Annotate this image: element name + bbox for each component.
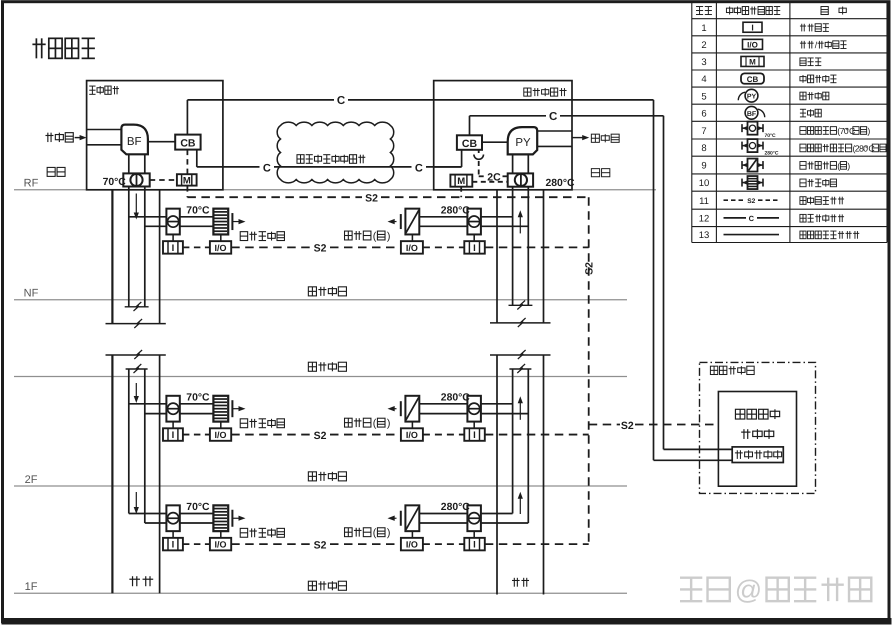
svg-text:12: 12 [699, 214, 710, 225]
legend icon closed supply grille [742, 182, 748, 184]
legend row 1 name 输入模块 [800, 25, 806, 27]
label 防烟分区 [308, 472, 316, 481]
io module I/O 1F [210, 538, 231, 551]
floor line NF [14, 299, 627, 301]
fire damper 70C branch NF [166, 209, 179, 235]
bus S2 branch 1F left [183, 543, 210, 545]
smoke valve arrow NF [392, 221, 397, 223]
label 室外 left [47, 167, 55, 176]
input module I NF [163, 241, 183, 254]
fire linkage controller box [718, 392, 796, 487]
svg-text:S2: S2 [314, 430, 327, 442]
exhaust shaft wall right [543, 190, 545, 323]
svg-text:C: C [415, 162, 423, 174]
smoke exhaust valve 1F [400, 511, 402, 526]
wire branch supply 2F [129, 403, 167, 405]
supply fan room box [87, 81, 223, 190]
wire CB to M dashed [186, 150, 188, 175]
input module I exhaust NF [464, 241, 485, 254]
module box M exhaust [450, 175, 472, 187]
legend icon module cabinet [741, 56, 764, 66]
control box CB supply [175, 135, 200, 150]
wire valve to damper 2F [419, 403, 467, 405]
closed air supply grille 1F [213, 505, 228, 531]
legend row 11 name 联动信号总线 [800, 197, 806, 205]
svg-text:I/O: I/O [406, 539, 418, 549]
svg-text:): ) [387, 230, 391, 242]
label 管井 exhaust [512, 579, 520, 581]
svg-text:BF: BF [127, 136, 142, 148]
closed air supply grille NF [213, 209, 228, 235]
svg-text:I: I [172, 243, 175, 254]
inlet duct wires [87, 129, 122, 131]
svg-text:6: 6 [701, 108, 706, 119]
legend line signal bus [724, 199, 745, 201]
svg-text:I: I [172, 430, 175, 441]
legend icon io module [743, 39, 763, 49]
svg-text:M: M [457, 176, 465, 187]
label 防烟分区 [308, 287, 316, 296]
svg-text:C: C [337, 95, 345, 107]
svg-text:S2: S2 [621, 420, 634, 432]
svg-text:I/O: I/O [214, 243, 226, 253]
label 管井 supply [129, 578, 140, 580]
wire CB exhaust to PY [482, 141, 508, 143]
fan outlet duct down [128, 154, 130, 173]
svg-text:(: ( [837, 161, 840, 171]
label 手动控制盘 [735, 452, 743, 454]
label 常闭补风口 1F [240, 528, 247, 537]
legend row 2 name 输入/输出模块 [800, 42, 806, 44]
svg-text:70°C: 70°C [103, 177, 127, 188]
fire damper 280C exhaust room [508, 173, 533, 186]
exhaust fan duct down [512, 154, 514, 173]
wire CB exhaust up / direct control C line B [469, 116, 471, 136]
svg-text:I/O: I/O [214, 430, 226, 440]
svg-text:CB: CB [747, 75, 759, 84]
label 排烟阀(口) 1F [345, 528, 353, 537]
svg-text:70°C: 70°C [186, 392, 210, 403]
smoke valve arrow 1F [392, 517, 397, 519]
svg-text:280°C: 280°C [441, 502, 470, 513]
svg-text:S2: S2 [365, 193, 378, 205]
fire damper 70C branch 2F [166, 396, 179, 422]
input module I 1F [163, 538, 183, 551]
wire valve to damper NF [419, 216, 467, 218]
bus S2 from M supply [186, 186, 188, 198]
svg-text:4: 4 [701, 74, 706, 85]
svg-text:C: C [263, 162, 271, 174]
svg-text:): ) [867, 126, 870, 136]
exhaust shaft break lower [490, 354, 551, 356]
fire damper 70C supply room [123, 173, 149, 186]
legend row 9 name 常闭排烟阀(口) [800, 162, 806, 170]
svg-text:(: ( [373, 527, 377, 539]
manual control panel box 手动控制盘 [732, 447, 783, 463]
svg-text:7: 7 [701, 126, 706, 137]
bus S2 exhaust 2F [423, 434, 464, 436]
svg-text:280°C: 280°C [546, 178, 575, 189]
cloud 连锁停补风风机线 [277, 122, 394, 183]
label 排烟阀(口) 2F [345, 418, 353, 427]
input module I exhaust 1F [464, 538, 485, 551]
label 防烟分区 [308, 581, 316, 590]
fire damper 280C branch 1F [467, 505, 481, 531]
input module I 2F [163, 428, 183, 441]
supply duct break upper [125, 306, 149, 308]
wire C line A down to control room [653, 100, 655, 460]
wire CB interlock out [196, 150, 198, 167]
supply flow arrow 2F [135, 383, 137, 399]
wire damper to duct 1F [481, 513, 513, 515]
legend icon supply fan [745, 106, 758, 119]
label 消防联动 [735, 409, 744, 419]
fan PY smoke-exhaust [508, 127, 538, 154]
wire CB exhaust 2C dashed to damper [478, 150, 480, 153]
legend row 7 name 常开防火阀(70℃熔断) [800, 127, 806, 135]
wire damper to grille 2F [180, 403, 214, 405]
svg-text:5: 5 [701, 91, 706, 102]
svg-text:S2: S2 [584, 262, 596, 275]
legend line direct control [724, 217, 747, 219]
label 排烟风机房 [524, 88, 531, 96]
svg-text:70°C: 70°C [765, 133, 777, 139]
svg-text:70°C: 70°C [186, 502, 210, 513]
wire damper to M dashed [150, 179, 177, 181]
wire damper to duct NF [481, 216, 513, 218]
fire damper 280C branch NF [467, 209, 481, 235]
supply flow arrow RF [135, 194, 137, 216]
wire C line B down to control room [663, 116, 665, 450]
watermark 知乎 @智能电气 [680, 576, 702, 578]
legend row 5 name 排烟风机 [800, 92, 806, 100]
bus S2 exhaust NF [423, 246, 464, 248]
label 控制器 [741, 431, 750, 433]
io module I/O exhaust 2F [401, 428, 423, 441]
bus S2 stub from M exhaust [460, 187, 462, 198]
svg-text:): ) [847, 161, 850, 171]
svg-text:280°C: 280°C [765, 151, 779, 157]
svg-text:1: 1 [701, 23, 706, 34]
legend row 13 name 消防设备供电线路 [800, 231, 806, 239]
wire branch supply NF [129, 216, 167, 218]
wire CB up / direct control C line A [186, 100, 188, 135]
supply shaft wall left [111, 190, 113, 324]
svg-text:I: I [473, 243, 476, 254]
svg-text:2F: 2F [25, 474, 38, 486]
legend icon closed smoke valve [742, 164, 748, 166]
svg-text:280°C: 280°C [441, 205, 470, 216]
wire damper to grille 1F [180, 513, 214, 515]
legend row 3 name 模块箱 [800, 58, 806, 66]
svg-text:PY: PY [515, 137, 531, 149]
bus S2 to control room [589, 424, 620, 426]
svg-text:@: @ [735, 575, 762, 605]
wire interlock into exhaust CB [434, 166, 462, 168]
label 排烟阀(口) NF [345, 231, 353, 240]
exhaust shaft break upper [490, 322, 551, 324]
svg-text:NF: NF [24, 288, 39, 300]
floor line RF [14, 189, 656, 191]
exhaust duct line right [527, 187, 529, 306]
svg-text:280°C: 280°C [441, 392, 470, 403]
smoke exhaust valve NF [400, 214, 402, 229]
floor line 2F [14, 485, 627, 487]
supply duct line left [128, 187, 130, 307]
svg-text:CB: CB [180, 138, 196, 150]
exhaust duct line left [512, 187, 514, 306]
svg-text:I/O: I/O [747, 41, 758, 50]
label 室外 right [591, 169, 599, 177]
svg-text:BF: BF [747, 111, 757, 118]
legend icon fan control box [741, 73, 764, 83]
io module I/O exhaust NF [401, 241, 423, 254]
exhaust flow arrow NF [519, 214, 521, 233]
supply shaft wall right [159, 190, 161, 324]
svg-text:1F: 1F [25, 581, 38, 593]
wire branch supply 1F [129, 513, 167, 515]
bus S2 branch 2F left [183, 434, 210, 436]
label 补风机房 [89, 85, 95, 87]
bus S2 exhaust 1F [423, 543, 464, 545]
svg-text:11: 11 [699, 196, 709, 207]
legend line fire power [724, 234, 780, 236]
svg-text:I/O: I/O [406, 430, 418, 440]
svg-text:M: M [749, 58, 756, 67]
svg-text:I: I [751, 23, 753, 33]
svg-text:70°C: 70°C [186, 205, 210, 216]
fan BF U-supply [121, 125, 147, 155]
svg-text:9: 9 [701, 161, 706, 172]
wire BF to CB [148, 141, 175, 143]
label 连锁停补风风机线 [297, 155, 304, 164]
exhaust outlet duct [537, 130, 572, 132]
io module I/O exhaust 1F [401, 538, 423, 551]
wire damper to grille NF [180, 216, 214, 218]
svg-text:I: I [473, 430, 476, 441]
control box CB exhaust [457, 135, 482, 150]
title 正确做法 [32, 43, 45, 45]
smoke exhaust valve 2F [400, 401, 402, 416]
svg-text:(: ( [373, 418, 377, 430]
wire M exhaust to damper dashed [472, 181, 507, 183]
smoke valve arrow 2F [392, 408, 397, 410]
svg-text:S2: S2 [314, 243, 327, 255]
exhaust duct break lower [509, 368, 531, 370]
exhaust duct break upper [509, 304, 533, 306]
svg-text:C: C [549, 111, 557, 123]
svg-text:PY: PY [747, 94, 757, 101]
svg-text:10: 10 [699, 178, 710, 189]
bus S2 vertical riser [588, 197, 590, 543]
closed air supply grille 2F [213, 396, 228, 422]
svg-text:S2: S2 [747, 198, 755, 205]
fire control room box 消防控制室 [700, 362, 816, 493]
label 消防控制室 [710, 366, 717, 374]
legend icon fire damper 70C [742, 127, 748, 129]
svg-text:C: C [749, 214, 755, 223]
svg-text:RF: RF [24, 178, 39, 190]
label 常闭补风口 2F [240, 419, 247, 428]
svg-text:): ) [887, 143, 890, 153]
svg-text:2: 2 [701, 40, 706, 51]
legend header [696, 6, 703, 8]
legend icon smoke fire damper 280C [742, 145, 748, 147]
input module I exhaust 2F [464, 428, 485, 441]
io module I/O NF [210, 241, 231, 254]
module box M supply [177, 174, 197, 185]
fire damper 70C branch 1F [166, 505, 179, 531]
bus S2 branch NF left [183, 246, 210, 248]
legend row 10 name 常闭补风口 [800, 179, 806, 187]
svg-text:13: 13 [699, 230, 710, 241]
wire valve to damper 1F [419, 513, 467, 515]
label 进风口 [45, 134, 53, 136]
svg-text:3: 3 [701, 57, 706, 68]
legend row 8 name 常开排烟防火阀(280℃熔断) [800, 144, 806, 152]
legend table grid [692, 1, 887, 3]
label 排出口 [591, 134, 599, 142]
legend row 12 name 直接控制线路 [800, 214, 806, 222]
wire damper to duct 2F [481, 403, 513, 405]
exhaust flow arrow 1F [519, 496, 521, 514]
label 常闭补风口 NF [240, 232, 247, 241]
supply duct break lower [126, 368, 148, 370]
svg-text:(: ( [373, 230, 377, 242]
svg-text:S2: S2 [314, 539, 327, 551]
svg-text:): ) [387, 527, 391, 539]
legend icon smoke exhaust fan [745, 89, 758, 102]
svg-text:I/O: I/O [214, 539, 226, 549]
svg-text:8: 8 [701, 143, 706, 154]
exhaust fan room box [434, 81, 572, 190]
air outlet arrow [572, 137, 585, 139]
svg-text:M: M [183, 175, 191, 186]
svg-text:CB: CB [462, 138, 478, 150]
air inlet arrow [75, 137, 84, 139]
supply shaft break upper [106, 323, 166, 325]
svg-text:I: I [473, 540, 476, 551]
legend icon input module [743, 22, 762, 32]
exhaust shaft wall left [496, 190, 498, 323]
svg-text:): ) [387, 418, 391, 430]
supply duct line right [144, 187, 146, 307]
label 防烟分区 [308, 362, 316, 371]
legend row 4 name 风机控制箱 [800, 77, 806, 81]
svg-text:I/O: I/O [406, 243, 418, 253]
fire damper 280C branch 2F [467, 396, 481, 422]
io module I/O 2F [210, 428, 231, 441]
floor line mid [14, 376, 627, 378]
legend row 6 name 补风机 [800, 108, 806, 110]
supply shaft break lower [106, 354, 166, 356]
floor line 1F [14, 592, 627, 594]
supply flow arrow 1F [135, 492, 137, 510]
exhaust flow arrow 2F [519, 400, 521, 420]
svg-text:I: I [172, 540, 175, 551]
